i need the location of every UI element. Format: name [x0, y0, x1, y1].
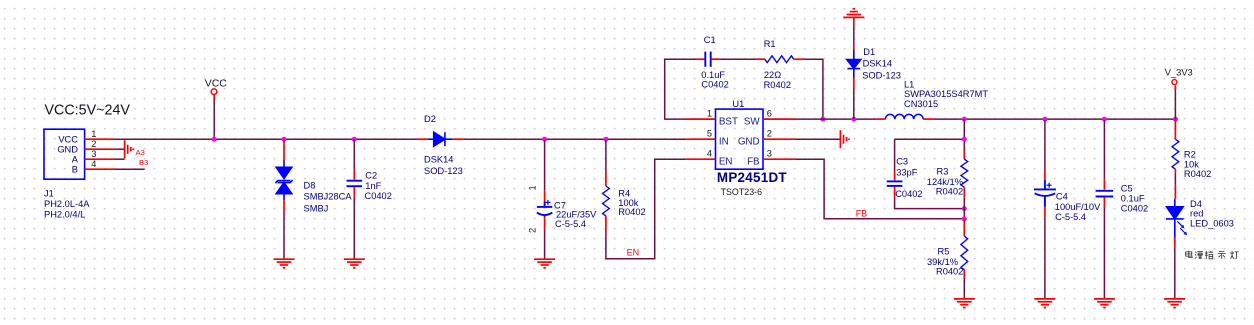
svg-text:V_3V3: V_3V3 — [1165, 68, 1193, 78]
capacitor C1 plates — [705, 52, 710, 67]
wire SW rail — [796, 118, 875, 120]
svg-text:C-5-5.4: C-5-5.4 — [555, 219, 586, 229]
svg-text:33pF: 33pF — [896, 167, 918, 177]
svg-text:D4: D4 — [1190, 199, 1202, 209]
capacitor C5 plates — [1096, 191, 1114, 197]
resistor R4 top stub — [605, 171, 607, 186]
J1 pin 3 stub — [85, 158, 115, 160]
node junction C7 — [542, 137, 547, 142]
resistor R5 zigzag — [961, 236, 968, 270]
svg-text:R0402: R0402 — [1184, 169, 1211, 179]
capacitor C3 bottom stub — [894, 187, 896, 197]
wire ground to D1 — [853, 17, 855, 26]
capacitor C5 bottom stub — [1103, 198, 1105, 209]
resistor R2 top stub — [1174, 119, 1176, 139]
ground below C2 — [344, 259, 365, 268]
ground at U1 GND (sideways) — [840, 130, 849, 148]
ground at J1 GND (sideways) — [125, 140, 134, 158]
svg-text:red: red — [1190, 209, 1203, 219]
svg-text:FB: FB — [856, 208, 868, 218]
svg-text:C4: C4 — [1056, 192, 1068, 202]
svg-text:TSOT23-6: TSOT23-6 — [721, 187, 762, 197]
resistor R4 zigzag — [603, 186, 610, 216]
wire rail to C5 — [1103, 120, 1105, 179]
svg-text:R3: R3 — [937, 166, 949, 176]
wire bus to C7 — [544, 140, 546, 190]
node junction C3 top — [962, 137, 967, 142]
wire U1 GND pin to ground — [796, 138, 840, 140]
wire R3 to FB node — [963, 198, 965, 219]
wire D1 to SW rail — [853, 89, 855, 119]
wire L1 to output — [934, 118, 1176, 120]
inductor L1 right stub — [923, 118, 934, 120]
wire EN net R4 to U1 — [606, 159, 685, 259]
capacitor C3 plates — [887, 181, 903, 186]
wire C5 to ground — [1103, 208, 1105, 299]
resistor R4 bottom stub — [605, 216, 607, 231]
svg-text:0.1uF: 0.1uF — [701, 70, 725, 80]
resistor R3 bottom stub — [963, 187, 965, 198]
capacitor C2 plates — [347, 181, 363, 187]
svg-text:2: 2 — [528, 228, 538, 233]
capacitor C5 top stub — [1103, 179, 1105, 190]
svg-text:1: 1 — [707, 109, 712, 119]
svg-text:2: 2 — [91, 139, 96, 149]
svg-text:D2: D2 — [424, 114, 436, 124]
resistor R3 zigzag — [961, 159, 968, 187]
wire C4 to ground — [1044, 218, 1046, 299]
resistor R5 top stub — [963, 219, 965, 236]
svg-text:4: 4 — [707, 149, 712, 159]
svg-text:1: 1 — [528, 185, 538, 190]
svg-text:PH2.0/4/L: PH2.0/4/L — [44, 210, 85, 220]
svg-text:SOD-123: SOD-123 — [862, 70, 901, 80]
node junction C4 — [1042, 117, 1047, 122]
diode D8 symbol (bidirectional TVS) — [275, 161, 292, 201]
wire R5 to ground — [963, 278, 965, 299]
wire bus to C2 — [353, 139, 355, 169]
svg-text:VCC:5V~24V: VCC:5V~24V — [45, 102, 131, 118]
node junction R4 — [603, 137, 608, 142]
svg-text:0.1uF: 0.1uF — [1121, 194, 1145, 204]
svg-text:1: 1 — [91, 129, 96, 139]
svg-text:C0402: C0402 — [701, 80, 728, 90]
resistor R1 right stub — [794, 58, 804, 60]
resistor R1 left stub — [755, 58, 765, 60]
svg-text:22Ω: 22Ω — [764, 70, 781, 80]
diode D2 symbol — [428, 132, 453, 146]
wire rail to C4 — [1044, 120, 1046, 170]
svg-text:C3: C3 — [896, 157, 908, 167]
svg-text:22uF/35V: 22uF/35V — [556, 209, 597, 219]
node junction FB — [962, 216, 967, 221]
wire VCC flag stem — [213, 95, 215, 99]
LED D4 symbol — [1166, 199, 1187, 237]
svg-text:CN3015: CN3015 — [904, 99, 938, 109]
capacitor C1 left stub — [695, 58, 704, 60]
svg-text:D1: D1 — [863, 47, 875, 57]
U1 pin 4 stub EN — [685, 158, 716, 160]
diode D8 bottom stub — [283, 200, 285, 213]
capacitor C2 bottom stub — [353, 187, 355, 197]
wire C7 to ground — [544, 230, 546, 259]
node junction C2 — [352, 137, 357, 142]
LED D4 top stub — [1174, 185, 1176, 199]
svg-text:VCC: VCC — [205, 78, 228, 90]
svg-text:100uF/10V: 100uF/10V — [1055, 202, 1101, 212]
svg-text:3: 3 — [91, 149, 96, 159]
svg-text:R1: R1 — [764, 39, 776, 49]
node junction VCC — [212, 137, 217, 142]
svg-text:EN: EN — [719, 156, 733, 167]
svg-text:C-5-5.4: C-5-5.4 — [1055, 212, 1086, 222]
svg-text:PH2.0L-4A: PH2.0L-4A — [44, 199, 90, 209]
svg-text:5: 5 — [707, 129, 712, 139]
svg-text:C0402: C0402 — [895, 189, 922, 199]
ground below D8 — [274, 259, 295, 268]
capacitor C7 top stub — [544, 190, 546, 201]
resistor R1 zigzag — [765, 56, 794, 63]
power flag V_3V3 circle — [1172, 80, 1177, 85]
capacitor C4 bottom stub — [1044, 207, 1046, 218]
wire input bus J1 to D2 — [115, 138, 417, 140]
svg-text:A3: A3 — [136, 148, 145, 157]
diode D8 top stub — [283, 139, 285, 160]
svg-text:C1: C1 — [704, 35, 716, 45]
power flag VCC circle — [211, 89, 217, 95]
svg-text:SMBJ: SMBJ — [304, 204, 329, 214]
svg-text:D8: D8 — [304, 181, 316, 191]
svg-text:DSK14: DSK14 — [424, 155, 453, 165]
node junction BST loop / SW rail — [820, 117, 825, 122]
capacitor C7 bottom stub — [544, 217, 546, 231]
svg-text:R0402: R0402 — [618, 207, 645, 217]
wire BST loop right to SW — [804, 59, 823, 119]
svg-text:DSK14: DSK14 — [863, 58, 892, 68]
svg-text:BST: BST — [719, 116, 738, 127]
wire J1 pin3 — [115, 158, 125, 160]
ground below C4 — [1034, 299, 1055, 308]
svg-text:B: B — [72, 165, 78, 175]
ground below D4 — [1164, 299, 1185, 308]
resistor R5 bottom stub — [963, 270, 965, 278]
LED D4 bottom stub — [1174, 238, 1176, 248]
connector J1 body — [44, 129, 85, 179]
wire D4 to ground — [1174, 248, 1176, 299]
svg-text:A: A — [72, 155, 79, 165]
J1 pin 2 stub — [85, 148, 115, 150]
svg-text:C5: C5 — [1121, 184, 1133, 194]
svg-text:C0402: C0402 — [1121, 204, 1148, 214]
J1 pin 4 stub — [85, 168, 115, 170]
capacitor C2 top stub — [353, 169, 355, 179]
node junction D1 — [851, 117, 856, 122]
wire J1 pin4 — [115, 168, 145, 170]
svg-text:L1: L1 — [904, 80, 914, 90]
wire V_3V3 stem — [1174, 85, 1176, 89]
wire C1 to R1 — [720, 58, 756, 60]
svg-text:1nF: 1nF — [365, 181, 381, 191]
svg-text:C2: C2 — [365, 171, 377, 181]
svg-text:MP2451DT: MP2451DT — [717, 170, 788, 185]
capacitor C4 top stub — [1044, 170, 1046, 180]
wire R3 column top — [963, 119, 965, 150]
svg-text:10k: 10k — [1184, 159, 1199, 169]
U1 pin 3 stub FB — [763, 158, 796, 160]
svg-text:6: 6 — [767, 109, 772, 119]
node junction V_3V3 — [1173, 117, 1178, 122]
svg-text:SW: SW — [744, 116, 761, 127]
diode D1 symbol — [847, 49, 861, 77]
diode D2 left stub — [417, 138, 428, 140]
svg-text:R0402: R0402 — [936, 267, 963, 277]
ground below R5 — [954, 299, 975, 308]
U1 pin 5 stub IN — [685, 138, 716, 140]
svg-text:R5: R5 — [938, 246, 950, 256]
wire D2 to U1 IN — [464, 138, 685, 140]
diode D1 bottom stub — [853, 78, 855, 89]
svg-text:SOD-123: SOD-123 — [424, 166, 463, 176]
svg-text:LED_0603: LED_0603 — [1190, 218, 1234, 228]
text power-indicator annotation (dian yuan zhi shi deng) — [1186, 251, 1193, 258]
op-amp U1 body MP2451DT — [716, 109, 764, 169]
resistor R3 top stub — [963, 150, 965, 159]
wire D8 to ground — [283, 214, 285, 260]
wire FB net from U1 — [796, 159, 964, 219]
wire R2 to D4 — [1174, 173, 1176, 185]
svg-text:VCC: VCC — [58, 135, 78, 145]
U1 pin 1 stub BST — [685, 118, 716, 120]
wire bus to R4 — [605, 140, 607, 171]
U1 pin 6 stub SW — [763, 118, 796, 120]
inductor L1 left stub — [875, 118, 885, 120]
wire C3 bottom — [895, 197, 965, 209]
svg-text:4: 4 — [91, 159, 96, 169]
U1 pin 2 stub GND — [763, 138, 796, 140]
svg-text:124k/1%: 124k/1% — [927, 177, 963, 187]
svg-text:U1: U1 — [732, 99, 744, 109]
resistor R2 bottom stub — [1174, 169, 1176, 173]
svg-text:GND: GND — [57, 145, 78, 155]
wire J1 pin2 to ground — [115, 148, 125, 150]
svg-text:J1: J1 — [44, 188, 54, 198]
capacitor C4 symbol (polarized) — [1034, 180, 1056, 207]
svg-text:C0402: C0402 — [365, 191, 392, 201]
svg-text:39k/1%: 39k/1% — [927, 257, 958, 267]
svg-text:2: 2 — [767, 129, 772, 139]
node junction R3 column — [962, 117, 967, 122]
diode D2 right stub — [453, 138, 464, 140]
wire C3 top — [895, 138, 965, 140]
capacitor C3 top stub — [894, 172, 896, 181]
svg-text:3: 3 — [767, 149, 772, 159]
svg-text:SMBJ28CA: SMBJ28CA — [304, 192, 353, 202]
resistor R2 zigzag — [1172, 139, 1179, 169]
ground below C7 — [534, 259, 555, 268]
wire C2 to ground — [353, 198, 355, 260]
svg-text:SWPA3015S4R7MT: SWPA3015S4R7MT — [904, 89, 988, 99]
capacitor C1 right stub — [712, 58, 720, 60]
ground above D1 (inverted) — [843, 9, 864, 18]
svg-text:R0402: R0402 — [936, 187, 963, 197]
svg-text:EN: EN — [627, 248, 640, 258]
svg-text:GND: GND — [738, 136, 760, 147]
node junction C5 — [1102, 117, 1107, 122]
svg-text:IN: IN — [719, 136, 729, 147]
capacitor C7 symbol (polarized) — [537, 200, 552, 217]
node junction D8 — [282, 137, 287, 142]
svg-text:R2: R2 — [1184, 150, 1196, 160]
svg-text:FB: FB — [747, 156, 760, 167]
svg-text:B3: B3 — [139, 158, 148, 167]
wire BST loop left — [665, 59, 696, 119]
svg-text:R0402: R0402 — [764, 80, 791, 90]
wire C3 vertical top — [894, 139, 896, 171]
inductor L1 coil — [885, 114, 923, 119]
node junction C3 bottom — [962, 206, 967, 211]
J1 pin 1 stub — [85, 138, 115, 140]
ground below C5 — [1094, 299, 1115, 308]
